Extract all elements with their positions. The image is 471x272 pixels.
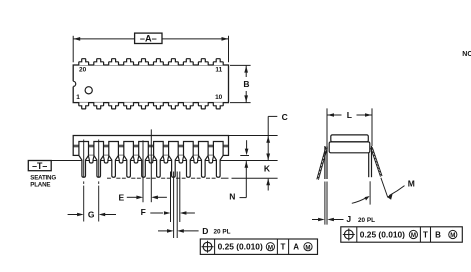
side view body parting lines	[73, 144, 228, 146]
svg-text:PLANE: PLANE	[30, 182, 50, 189]
svg-text:E: E	[118, 192, 124, 202]
svg-text:–T–: –T–	[32, 161, 47, 171]
dimension D extension lines	[173, 172, 175, 239]
seating plane datum line	[51, 160, 277, 162]
svg-text:20: 20	[79, 67, 87, 74]
svg-text:0.25 (0.010): 0.25 (0.010)	[218, 242, 263, 252]
svg-text:NOTE: NOTE	[462, 51, 471, 58]
svg-text:A: A	[293, 243, 299, 252]
svg-text:M: M	[305, 244, 310, 251]
dimension B line with arrows	[245, 65, 247, 77]
svg-text:M: M	[268, 244, 273, 251]
svg-text:M: M	[411, 232, 416, 239]
side view far row leads (tapers and short tips)	[88, 155, 94, 163]
side view near row leads (shoulders, tapers, tips)	[79, 142, 89, 178]
end view left straight lead	[324, 146, 326, 179]
svg-text:B: B	[435, 231, 441, 240]
end view package body	[331, 135, 369, 142]
dimension A label box	[135, 33, 162, 43]
svg-text:0.25 (0.010): 0.25 (0.010)	[360, 230, 405, 240]
svg-text:L: L	[347, 110, 352, 120]
svg-text:M: M	[408, 179, 415, 189]
dimension M angle arc and label	[369, 181, 371, 204]
svg-text:J: J	[346, 214, 351, 224]
end view right straight lead	[368, 146, 370, 177]
side view body	[73, 136, 228, 156]
lead tip line dashes	[116, 177, 120, 179]
svg-text:20 PL: 20 PL	[214, 229, 231, 236]
top view pin 1 circle indicator	[85, 87, 92, 94]
svg-text:11: 11	[215, 67, 222, 74]
top view pins (castellated, both rows)	[79, 59, 89, 65]
svg-text:10: 10	[215, 94, 223, 101]
svg-text:K: K	[264, 164, 271, 174]
end view left lead extension lines to J dimension	[324, 182, 326, 225]
feature control frame for J	[341, 227, 463, 242]
svg-text:D: D	[202, 226, 208, 236]
feature control frame for D	[200, 239, 317, 254]
dimension N arrows and label	[246, 140, 248, 150]
seating plane datum box -T-	[28, 161, 51, 171]
svg-text:B: B	[243, 79, 249, 89]
svg-text:1: 1	[76, 94, 80, 101]
svg-text:M: M	[450, 232, 455, 239]
dimension L line with arrows and label	[327, 114, 342, 116]
dimension F extension lines	[170, 172, 172, 223]
top view pin-1 index notch on left edge	[72, 81, 74, 86]
end view right flared lead (max splay, hatched)	[371, 148, 381, 177]
dimension L extension lines	[326, 108, 328, 146]
dimension B extension lines	[230, 64, 251, 66]
dimension G arrows and label	[68, 214, 81, 216]
dimension E extension lines	[142, 140, 144, 202]
svg-text:G: G	[88, 209, 95, 219]
svg-text:SEATING: SEATING	[30, 175, 56, 182]
top view package body	[73, 65, 228, 103]
dimension J arrows and label	[312, 219, 321, 221]
dimension A extension lines	[72, 36, 74, 63]
svg-text:C: C	[282, 112, 288, 122]
end view left flared lead (max splay, hatched)	[318, 148, 327, 180]
dimension A line with arrows	[73, 38, 134, 40]
svg-text:20 PL: 20 PL	[358, 217, 375, 224]
svg-text:F: F	[141, 207, 146, 217]
dimension D arrows and label	[158, 230, 170, 232]
svg-text:T: T	[423, 231, 428, 240]
body bottom extension line right	[240, 155, 249, 157]
dimension G centerlines	[83, 140, 85, 178]
svg-text:N: N	[229, 192, 235, 202]
svg-text:–A–: –A–	[140, 34, 157, 44]
end view right flared lead angle extension line	[381, 178, 388, 198]
body top extension line right	[229, 135, 278, 137]
svg-text:T: T	[281, 243, 286, 252]
